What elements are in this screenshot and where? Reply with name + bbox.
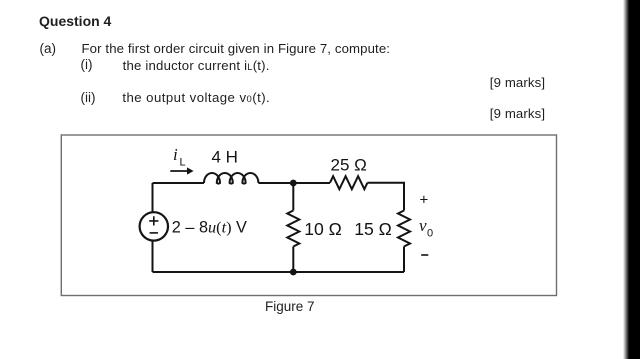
node dot bottom bbox=[290, 269, 297, 276]
svg-text:i: i bbox=[173, 145, 178, 164]
marks 1 bbox=[490, 76, 545, 89]
wire top-left bbox=[153, 182, 205, 184]
svg-text:0: 0 bbox=[427, 227, 433, 239]
figure caption bbox=[265, 300, 315, 314]
marks 2 bbox=[490, 107, 545, 120]
resistor R 10ohm bbox=[287, 211, 299, 247]
wire top-middle bbox=[258, 182, 330, 184]
item (i) text bbox=[123, 59, 270, 73]
middle branch wire upper bbox=[292, 183, 294, 211]
item (ii) text bbox=[122, 91, 270, 105]
heading: Question 4 bbox=[39, 14, 111, 28]
wire left-top bbox=[152, 183, 154, 212]
svg-text:10 Ω: 10 Ω bbox=[304, 219, 342, 239]
black strip at right edge bbox=[623, 0, 640, 359]
wire top-right bbox=[368, 183, 405, 211]
middle branch wire lower bbox=[292, 247, 294, 273]
svg-text:15 Ω: 15 Ω bbox=[354, 219, 392, 239]
inductor L 4H bbox=[204, 173, 258, 184]
svg-text:2 – 8u(t) V: 2 – 8u(t) V bbox=[172, 218, 247, 237]
wire left-bottom bbox=[152, 241, 154, 272]
item (a) text bbox=[82, 42, 391, 55]
item (a) label bbox=[40, 42, 57, 56]
output minus mark bbox=[421, 254, 428, 256]
item (i) label bbox=[81, 58, 93, 72]
VS plus mark bbox=[149, 216, 158, 225]
iL label bbox=[173, 145, 186, 169]
svg-text:+: + bbox=[420, 192, 429, 209]
voltage source VS circle bbox=[140, 212, 168, 240]
wire right-bottom bbox=[403, 247, 405, 273]
svg-text:v: v bbox=[419, 216, 427, 235]
iL current arrow bbox=[170, 167, 193, 174]
VS minus mark bbox=[150, 232, 158, 234]
node dot top bbox=[290, 180, 297, 187]
svg-text:25 Ω: 25 Ω bbox=[331, 155, 367, 174]
resistor R 15ohm bbox=[398, 211, 410, 247]
resistor R 25ohm bbox=[330, 176, 367, 189]
wire bottom bbox=[153, 271, 405, 273]
svg-text:L: L bbox=[180, 157, 186, 169]
output v0 label bbox=[419, 216, 433, 239]
svg-text:4 H: 4 H bbox=[212, 148, 238, 167]
item (ii) label bbox=[81, 91, 96, 105]
